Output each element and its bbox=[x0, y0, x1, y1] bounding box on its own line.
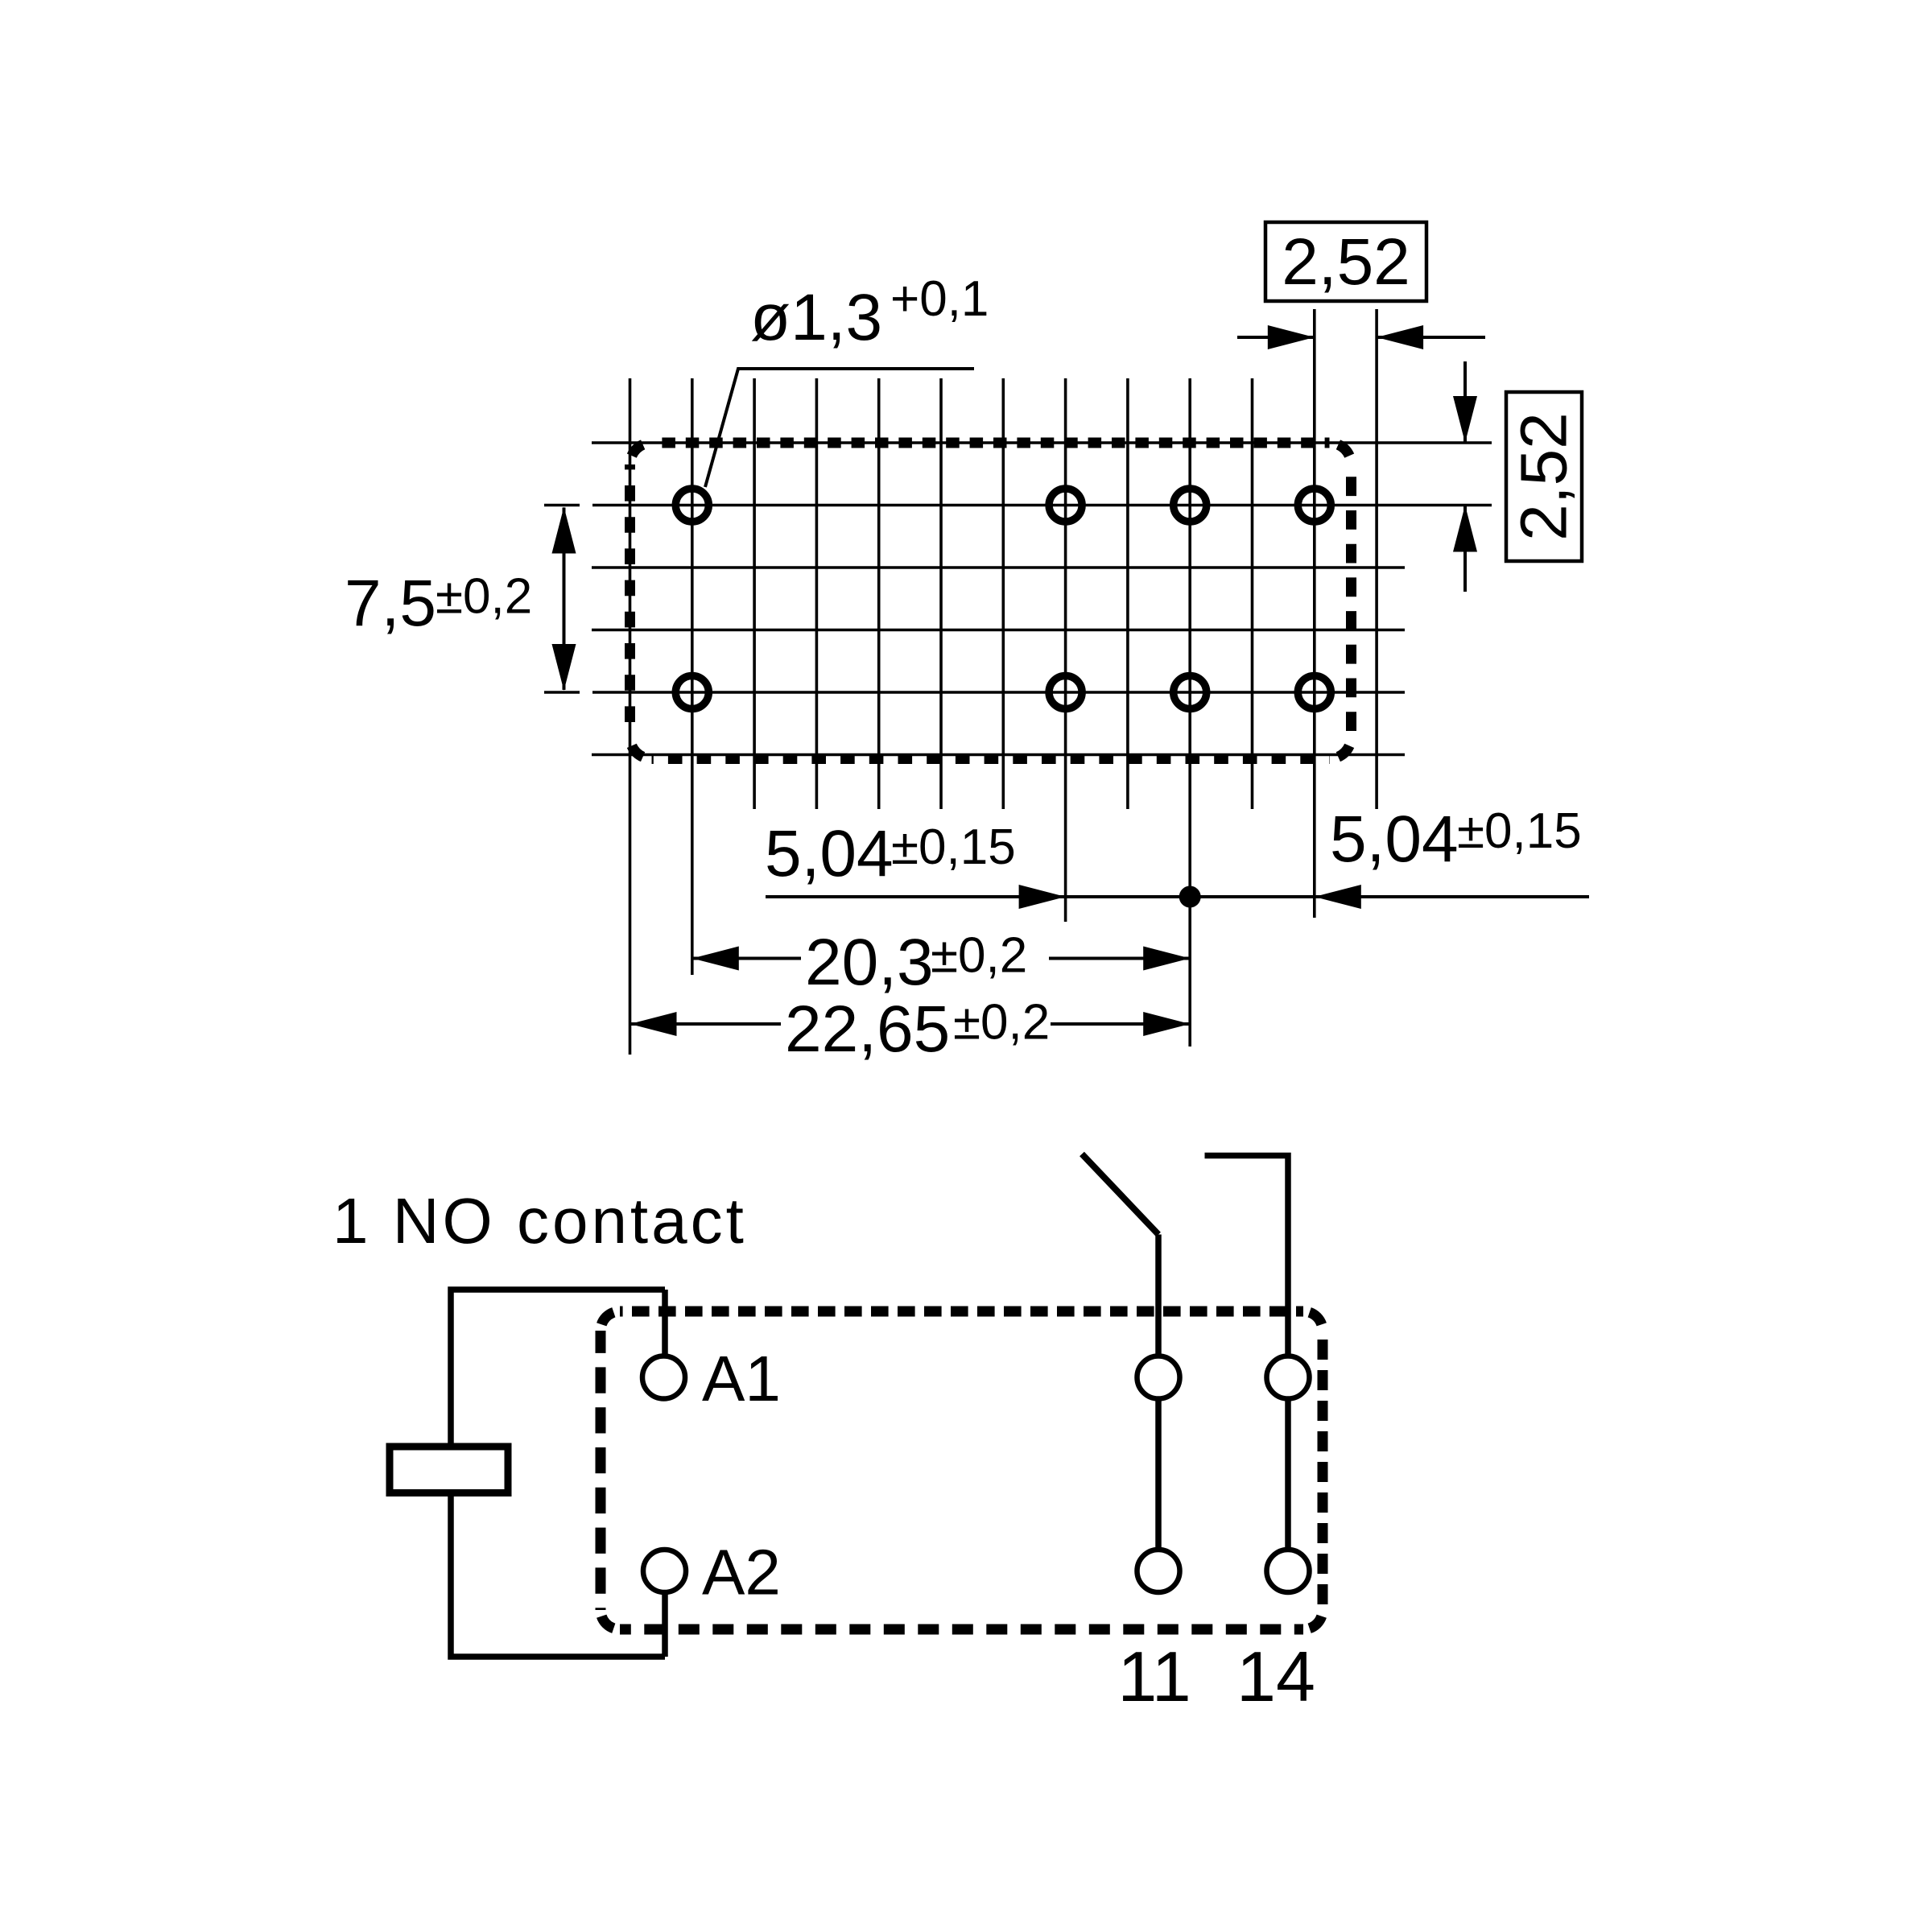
coil element bbox=[390, 1447, 508, 1493]
svg-text:ø1,3: ø1,3 bbox=[750, 281, 882, 354]
svg-text:22,65: 22,65 bbox=[785, 993, 950, 1066]
relay body dashed outline (footprint) bbox=[630, 443, 1352, 759]
hole pad 3 bbox=[1174, 489, 1207, 522]
label 22,65 tolerance bbox=[785, 993, 1050, 1066]
terminal 14 lower bbox=[1267, 1550, 1310, 1592]
svg-text:2,52: 2,52 bbox=[1282, 225, 1410, 299]
svg-text:A2: A2 bbox=[702, 1537, 781, 1608]
svg-text:±0,15: ±0,15 bbox=[1457, 803, 1582, 859]
svg-text:±0,2: ±0,2 bbox=[436, 569, 532, 625]
terminal 11 lower bbox=[1137, 1550, 1180, 1592]
svg-text:±0,2: ±0,2 bbox=[953, 995, 1050, 1051]
svg-text:1 NO contact: 1 NO contact bbox=[332, 1185, 747, 1257]
wire pole 11 upper bbox=[1155, 1235, 1162, 1356]
coil supply loop wire bbox=[451, 1290, 665, 1657]
svg-text:5,04: 5,04 bbox=[765, 817, 894, 890]
hole pad 6 bbox=[1049, 676, 1082, 709]
svg-text:±0,15: ±0,15 bbox=[891, 819, 1016, 875]
wire A1 drop bbox=[662, 1290, 668, 1356]
leader line for hole diameter bbox=[705, 369, 974, 487]
label 7,5 tolerance bbox=[345, 567, 532, 640]
hole pad 8 bbox=[1298, 676, 1331, 709]
dimension 20,3 bbox=[692, 947, 1190, 971]
terminal 14 upper bbox=[1267, 1356, 1310, 1399]
dimension 5,04 line with center dot bbox=[766, 885, 1589, 909]
svg-text:20,3: 20,3 bbox=[805, 926, 934, 999]
label hole diameter 1,3 bbox=[750, 271, 989, 354]
hole pad 4 bbox=[1298, 489, 1331, 522]
wire pole 11 inner bbox=[1155, 1399, 1162, 1550]
switch blade NO contact bbox=[1082, 1154, 1158, 1235]
terminal A2 bbox=[643, 1550, 686, 1592]
dimension 7,5 vertical (left) bbox=[552, 507, 576, 691]
label 5,04 right bbox=[1330, 803, 1582, 876]
dimension 2,52 horizontal (top right) bbox=[1237, 222, 1485, 349]
dimension 22,65 bbox=[630, 1012, 1191, 1036]
hole pad 7 bbox=[1174, 676, 1207, 709]
wire grid horizontal lines bbox=[544, 443, 1492, 755]
svg-text:2,52: 2,52 bbox=[1508, 412, 1581, 541]
svg-text:A1: A1 bbox=[702, 1343, 781, 1414]
dimension 2,52 vertical (right, rotated box) bbox=[1453, 361, 1582, 592]
terminal A1 bbox=[642, 1356, 685, 1399]
svg-text:5,04: 5,04 bbox=[1330, 803, 1459, 876]
label 20,3 tolerance bbox=[805, 926, 1027, 999]
svg-text:7,5: 7,5 bbox=[345, 567, 436, 640]
wire contact 14 top bbox=[1205, 1156, 1289, 1356]
terminal 11 upper bbox=[1137, 1356, 1180, 1399]
svg-text:+0,1: +0,1 bbox=[890, 271, 989, 327]
svg-text:14: 14 bbox=[1236, 1637, 1315, 1716]
svg-text:11: 11 bbox=[1117, 1637, 1191, 1716]
hole pad 1 bbox=[675, 489, 708, 522]
relay schematic dashed outline bbox=[601, 1311, 1323, 1629]
wire contact 14 inner bbox=[1285, 1399, 1291, 1550]
hole pad 2 bbox=[1049, 489, 1082, 522]
wire grid vertical lines bbox=[630, 309, 1377, 1055]
label 5,04 left bbox=[765, 817, 1016, 890]
wire A2 drop bbox=[662, 1592, 668, 1657]
svg-text:±0,2: ±0,2 bbox=[931, 928, 1027, 984]
hole pad 5 bbox=[675, 676, 708, 709]
